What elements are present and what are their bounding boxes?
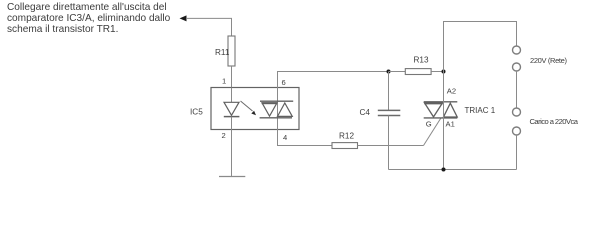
svg-text:220V (Rete): 220V (Rete) [530,56,567,65]
svg-text:6: 6 [282,78,286,87]
note text [7,2,171,35]
svg-text:R11: R11 [215,48,230,57]
junction node at A1 bottom [442,168,446,172]
gate diagonal wire [424,118,442,146]
bottom rail wire [389,169,517,171]
svg-text:2: 2 [222,131,226,140]
photo-triac left triangle thick base [262,102,278,104]
svg-text:1: 1 [222,77,226,86]
wire terminal 4 down to bottom rail [516,135,518,170]
junction node at A2 [442,70,446,74]
arrow pointing to note [180,15,187,21]
wire terminal 2 to terminal 3 [516,71,518,108]
svg-text:Collegare direttamente all'usc: Collegare direttamente all'uscita del [7,2,167,13]
photo-triac top bar [260,100,293,102]
pin 2 wire down [231,130,233,177]
pin 6 wire up and right to junction [278,72,389,88]
svg-text:Carico a 220Vca: Carico a 220Vca [530,117,579,126]
resistor R12 [332,143,358,149]
svg-text:comparatore IC3/A, eliminando: comparatore IC3/A, eliminando dallo [7,13,171,24]
photo-triac vertical wire pin6-pin4 [277,88,279,130]
pin 4 wire to R12 [278,130,333,146]
triac top bar [424,101,458,103]
light emission arrow [241,101,253,111]
svg-text:R13: R13 [414,56,429,65]
optocoupler IC5 box [211,88,299,130]
terminal circle 2 [513,63,521,71]
svg-text:IC5: IC5 [190,108,203,117]
triac left triangle [425,103,443,117]
terminal circle 3 [513,108,521,116]
capacitor C4 top wire [388,72,390,111]
triac bottom bar [424,117,458,119]
capacitor C4 plates [378,109,401,111]
svg-text:A1: A1 [446,120,455,129]
wire R12 to gate bend [358,145,424,147]
LED anode wire [231,88,233,103]
resistor R13 [405,69,431,75]
wire from arrow to R11 top [186,18,232,36]
photo-triac left triangle [262,103,277,116]
capacitor C4 bottom wire [388,116,390,170]
ground bar [219,176,245,178]
svg-text:R12: R12 [339,132,354,141]
photo-triac bottom bar [260,117,292,119]
svg-text:TRIAC 1: TRIAC 1 [465,106,496,115]
terminal circle 4 [513,127,521,135]
LED D (triangle) [224,102,239,115]
resistor R11 [228,36,235,66]
triac A2-A1 center wire [443,72,445,170]
terminal circle 1 [513,46,521,54]
photo-triac right triangle [278,103,293,116]
wire R13 to A2 junction [431,71,443,73]
triac left triangle thick base [424,102,442,104]
svg-text:C4: C4 [360,108,371,117]
triac right triangle [444,103,458,117]
wire junction to R13 [389,71,406,73]
junction node at C4 top [387,70,391,74]
svg-text:A2: A2 [447,87,456,96]
wire R11 to pin 1 [231,66,233,88]
wire junction up and right to terminal 1 [444,22,517,72]
svg-text:G: G [426,120,432,129]
svg-text:schema il transistor TR1.: schema il transistor TR1. [7,24,118,35]
svg-text:4: 4 [283,133,287,142]
LED cathode bar [224,116,240,118]
LED cathode wire to pin 2 [231,117,233,130]
